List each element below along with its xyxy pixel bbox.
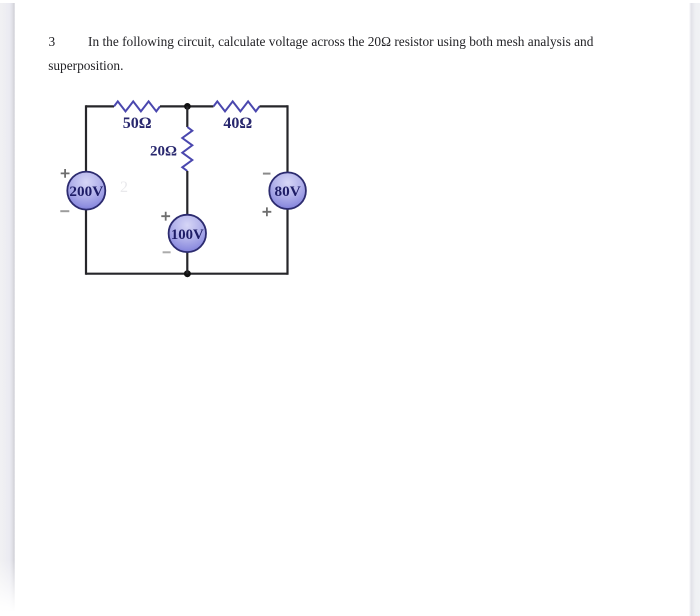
- problem statement line 2: [48, 59, 123, 72]
- resistor 20Ω (vertical): [182, 127, 192, 171]
- plus sign of 200V: [61, 169, 70, 178]
- wire: top-left segment: [86, 105, 114, 107]
- wire: top-middle segment: [160, 105, 214, 107]
- svg-text:2: 2: [120, 179, 128, 196]
- source V3 100V circle: [169, 215, 206, 252]
- source V1 200V circle: [67, 172, 105, 210]
- problem number 3: [49, 35, 56, 48]
- wire: left vertical upper: [85, 105, 87, 172]
- minus sign of 100V: [163, 251, 171, 253]
- wire: top-right segment: [260, 105, 288, 107]
- problem statement line 1: [88, 35, 593, 48]
- wire: left vertical lower: [85, 209, 87, 274]
- wire: bottom horizontal: [86, 273, 288, 275]
- plus sign of 100V: [161, 212, 170, 221]
- svg-text:80V: 80V: [275, 183, 301, 200]
- plus sign of 80V: [263, 207, 272, 216]
- node: bottom junction dot: [184, 270, 191, 277]
- page right edge shading: [689, 3, 700, 616]
- minus sign of 80V: [263, 173, 271, 175]
- svg-text:50Ω: 50Ω: [123, 115, 152, 132]
- wire: center vertical above 20Ω: [186, 106, 188, 127]
- page left edge shading: [0, 3, 15, 612]
- svg-text:40Ω: 40Ω: [223, 115, 252, 132]
- resistor 50Ω: [114, 101, 160, 111]
- minus sign of 200V: [60, 210, 69, 212]
- wire: right vertical lower: [286, 209, 288, 275]
- wire: center vertical between 20Ω and 100V: [186, 171, 188, 215]
- node: top junction dot: [184, 103, 191, 110]
- source V2 80V circle: [269, 172, 306, 209]
- svg-text:20Ω: 20Ω: [150, 144, 177, 160]
- resistor 40Ω: [214, 101, 260, 111]
- wire: right vertical upper: [286, 105, 288, 172]
- svg-text:200V: 200V: [69, 183, 103, 200]
- svg-text:100V: 100V: [171, 227, 204, 243]
- wire: center vertical below 100V: [186, 252, 188, 274]
